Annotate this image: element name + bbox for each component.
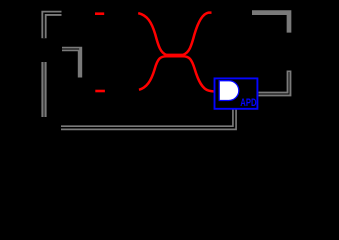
fiber: top input dash (optical fiber hidden behind component) — [95, 12, 104, 15]
wire: coax cable top-left horizontal+vertical (double line, upper segment) — [44, 13, 62, 38]
coupler: bottom fiber through 2x2 fused coupler (left arm, waist, right arm to APD) — [139, 56, 214, 91]
wire: coax cable bottom run to APD (double line) — [61, 110, 235, 128]
svg-text:APD: APD — [240, 97, 256, 109]
wire: coax cable stub with corner (second gray run) — [62, 49, 80, 78]
detector box: APD module outline — [215, 78, 258, 108]
wire: coax cable left vertical (lower segment of same run) — [41, 62, 46, 117]
wire: coax cable right run lower segment into APD right side — [259, 71, 290, 95]
coupler: top fiber through 2x2 fused coupler (left arm, waist, right arm) — [138, 13, 211, 55]
detector symbol: photodiode D-shape inside APD box — [219, 81, 239, 101]
wire: coax cable top-right run (upper segment, solid look) — [252, 13, 289, 33]
fiber: bottom input dash (optical fiber hidden behind component) — [95, 90, 105, 93]
